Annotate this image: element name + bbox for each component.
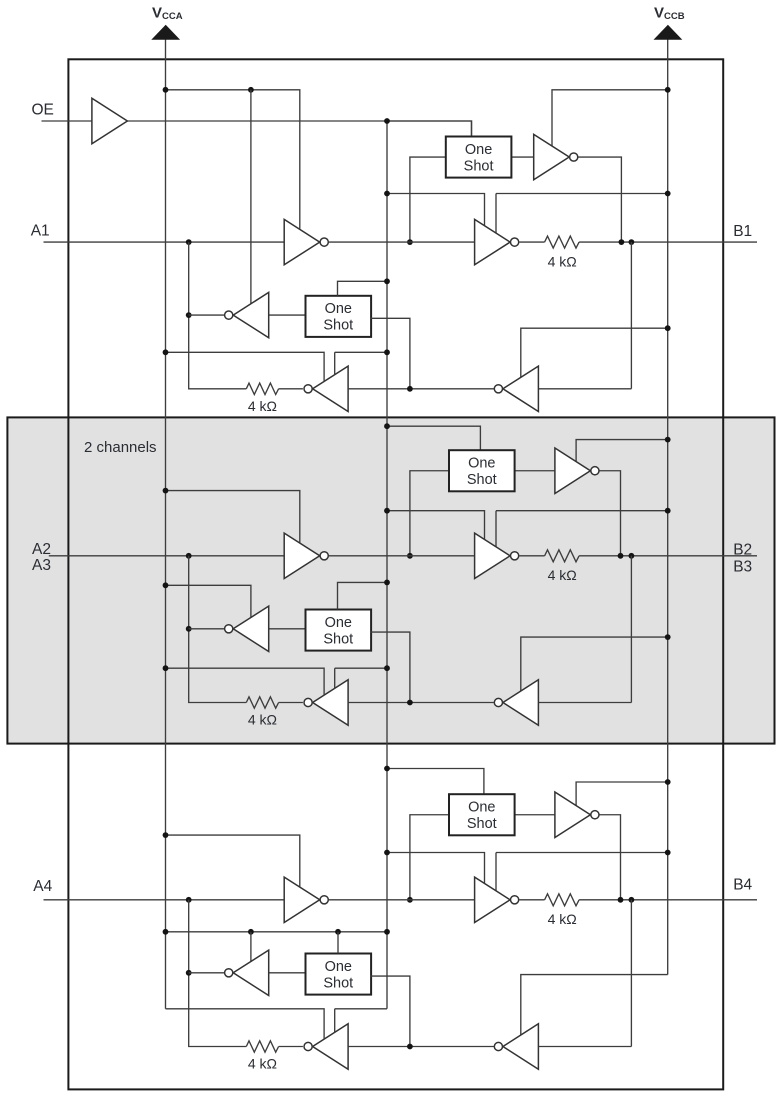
node VCCB junction fb 2 (665, 634, 671, 640)
node OE junction os1 4 (384, 766, 390, 772)
wire bottom-right inverter enable 4 (521, 975, 668, 1036)
node OE junction drv 4 (384, 850, 390, 856)
wire driver enable left pin 2 (387, 511, 485, 540)
wire enable rail 4 (166, 931, 388, 933)
node VCCB junction os 1 (665, 87, 671, 93)
svg-text:B1: B1 (733, 223, 752, 240)
wire mid inverter input 4 (269, 972, 306, 974)
VCCA supply rail (165, 39, 167, 1009)
wire one-shot input tap 4 (410, 815, 449, 900)
mid inverter 1 (233, 292, 269, 337)
bottom-right inverter 4 (503, 1024, 539, 1069)
svg-text:One: One (325, 301, 352, 317)
svg-text:4 kΩ: 4 kΩ (248, 1056, 277, 1072)
one-shot buffer 4 (555, 792, 591, 837)
wire A feedback drop 2 (189, 556, 247, 703)
node bottom line node 1 (407, 386, 413, 392)
wire driver supply right pin 1 (496, 194, 668, 234)
one-shot U4a (449, 794, 515, 835)
svg-text:A2: A2 (32, 541, 51, 558)
resistor 4 kOhm 4 B-side (519, 894, 757, 906)
node feedback tap 4 (186, 897, 192, 903)
node feedback node 4 (629, 897, 635, 903)
svg-text:OE: OE (32, 102, 54, 119)
B-side driver 4 (475, 877, 511, 922)
one-shot buffer 2 (555, 448, 591, 493)
wire one-shot to buffer 2 (515, 470, 555, 472)
bottom-left inverter 4 (313, 1024, 349, 1069)
node one-shot drive node 2 (618, 553, 624, 559)
A-side buffer 1 (284, 219, 320, 264)
wire bottom enable rail left 2 (166, 668, 325, 695)
one-shot U2a (449, 450, 515, 491)
resistor 4 kOhm 2 A-side (246, 697, 303, 708)
wire one-shot 2 output 4 (370, 976, 410, 1046)
wire bottom-right inverter enable 1 (521, 328, 668, 377)
node driver input node 4 (407, 897, 413, 903)
wire one-shot 2 top wire 2 (338, 582, 388, 609)
wire one-shot buffer enable 2 (576, 440, 668, 464)
wire mid inverter enable stub 2 (166, 585, 251, 617)
wire one-shot to buffer 1 (511, 156, 533, 158)
wire A1 line (44, 241, 285, 243)
wire OE to one-shot 1 (387, 121, 472, 137)
wire mid inverter output 2 (189, 628, 225, 630)
wire OE to one-shot 4 (387, 769, 484, 795)
node OE junction drv 1 (384, 191, 390, 197)
wire B feedback drop 1 (538, 242, 631, 389)
A-side buffer 2 (284, 533, 320, 578)
VCCB supply arrow (654, 25, 683, 40)
wire A-buffer enable stub 4 (166, 835, 300, 887)
node VCCA junction b 2 (163, 582, 169, 588)
wire B feedback drop 4 (538, 900, 631, 1047)
wire mid inverter output 4 (189, 972, 225, 974)
node one-shot drive node 1 (619, 239, 625, 245)
node VCCB junction fb 1 (665, 325, 671, 331)
wire bottom inverter link 4 (349, 1046, 495, 1048)
wire one-shot buffer output 1 (578, 157, 621, 242)
svg-text:4 kΩ: 4 kΩ (248, 398, 277, 414)
resistor 4 kOhm 1 A-side (246, 383, 303, 394)
VCCA supply arrow (151, 25, 180, 40)
bottom-right inverter 2 (503, 680, 539, 725)
wire A buffer to B driver 4 (329, 899, 475, 901)
svg-text:One: One (468, 456, 495, 472)
node VCCB junction drv 4 (665, 850, 671, 856)
svg-text:4 kΩ: 4 kΩ (548, 254, 577, 270)
wire one-shot buffer enable 1 (552, 90, 668, 148)
wire one-shot 2 top wire 4 (337, 932, 339, 954)
svg-text:Shot: Shot (464, 158, 494, 174)
svg-text:One: One (325, 959, 352, 975)
wire VCCA-side enable rail 1 (166, 90, 300, 229)
B-side driver 2 (475, 533, 511, 578)
IC boundary box (68, 59, 723, 1089)
wire driver supply right pin 4 (496, 853, 668, 891)
wire bottom inverter link 2 (349, 702, 495, 704)
node VCCB junction drv 1 (665, 191, 671, 197)
wire driver supply right pin 2 (496, 511, 668, 547)
wire one-shot to buffer 4 (515, 814, 555, 816)
node bottom line node 4 (407, 1044, 413, 1050)
node VCCB junction os 4 (665, 779, 671, 785)
one-shot U4b (306, 954, 372, 995)
svg-text:A1: A1 (31, 223, 50, 240)
bottom-left inverter 1 (313, 366, 349, 411)
node feedback tap 2 (186, 553, 192, 559)
wire one-shot buffer enable 4 (576, 782, 668, 808)
node VCCB junction drv 2 (665, 508, 671, 514)
node VCCA junction 1 (163, 87, 169, 93)
svg-text:A4: A4 (33, 878, 52, 895)
node feedback tap 1 (186, 239, 192, 245)
svg-text:One: One (468, 800, 495, 816)
node OE junction drv 2 (384, 508, 390, 514)
wire bottom enable rail right 4 (335, 1009, 387, 1033)
wire inverter enable drop 1 (250, 90, 252, 304)
mid inverter 4 (233, 950, 269, 995)
node OE junction os1 1 (384, 118, 390, 124)
node mid inverter node 2 (186, 626, 192, 632)
wire OE line to one-shot U1 top (42, 121, 472, 137)
svg-text:Shot: Shot (467, 472, 497, 488)
node one-shot top tee 4 (335, 929, 341, 935)
OE input buffer (92, 98, 128, 143)
svg-text:4 kΩ: 4 kΩ (548, 567, 577, 583)
svg-text:One: One (325, 615, 352, 631)
mid inverter 2 (233, 606, 269, 651)
wire A-buffer enable stub 2 (166, 491, 300, 543)
resistor 4 kOhm 1 B-side (519, 236, 757, 248)
svg-text:B2: B2 (733, 542, 752, 559)
node feedback node 2 (629, 553, 635, 559)
node mid inverter node 4 (186, 970, 192, 976)
node VCCB junction os 2 (665, 437, 671, 443)
wire bottom enable rail left 4 (166, 1009, 325, 1040)
svg-text:Shot: Shot (323, 975, 353, 991)
node driver input node 1 (407, 239, 413, 245)
bottom-right inverter 1 (503, 366, 539, 411)
node OE junction c 2 (384, 665, 390, 671)
node VCCA junction c 1 (163, 349, 169, 355)
wire driver enable left pin 4 (387, 853, 485, 884)
VCCB supply rail (667, 39, 669, 975)
node VCCA junction a 2 (163, 488, 169, 494)
wire mid inverter input 2 (269, 628, 306, 630)
node OE junction rail 4 (384, 929, 390, 935)
node feedback node 1 (629, 239, 635, 245)
svg-text:Shot: Shot (323, 631, 353, 647)
resistor 4 kOhm 2 B-side (519, 550, 757, 562)
wire A buffer to B driver 1 (329, 241, 475, 243)
one-shot U1a (446, 137, 512, 178)
svg-text:4 kΩ: 4 kΩ (248, 712, 277, 728)
svg-text:B4: B4 (733, 876, 752, 893)
wire mid inverter input 1 (269, 314, 306, 316)
svg-text:Shot: Shot (323, 318, 353, 334)
svg-text:Shot: Shot (467, 816, 497, 832)
wire A buffer to B driver 2 (329, 555, 475, 557)
svg-text:4 kΩ: 4 kΩ (548, 911, 577, 927)
wire one-shot 2 output 1 (370, 318, 410, 388)
node VCCA junction b 4 (163, 929, 169, 935)
node mid inverter node 1 (186, 312, 192, 318)
wire bottom-right inverter enable 2 (521, 637, 668, 691)
wire one-shot buffer output 2 (600, 471, 621, 556)
wire mid inverter output 1 (189, 314, 225, 316)
wire A feedback drop 4 (189, 900, 247, 1047)
node driver input node 2 (407, 553, 413, 559)
one-shot U1b (306, 296, 372, 337)
one-shot U2b (306, 610, 372, 651)
node VCCA junction a 4 (163, 832, 169, 838)
shaded 2-channels region (7, 417, 774, 743)
B-side driver 1 (475, 219, 511, 264)
wire one-shot 2 output 2 (370, 632, 410, 702)
wire bottom inverter link 1 (349, 388, 495, 390)
wire OE to one-shot 2 (387, 426, 480, 450)
bottom-left inverter 2 (313, 680, 349, 725)
resistor 4 kOhm 4 A-side (246, 1041, 303, 1052)
svg-text:B3: B3 (733, 559, 752, 576)
svg-text:One: One (465, 142, 492, 158)
wire inverter enable drop 4 (250, 932, 252, 962)
node OE junction os1 2 (384, 423, 390, 429)
wire one-shot input tap 2 (410, 471, 449, 556)
wire bottom enable rail left 1 (166, 352, 325, 381)
node enable tee 4 (248, 929, 254, 935)
wire A2 line (49, 555, 284, 557)
node VCCA junction c 2 (163, 665, 169, 671)
wire B feedback drop 2 (538, 556, 631, 703)
node one-shot drive node 4 (618, 897, 624, 903)
wire bottom enable rail right 2 (335, 668, 387, 688)
node OE junction os2 1 (384, 278, 390, 284)
node bottom line node 2 (407, 700, 413, 706)
wire A feedback drop 1 (189, 242, 247, 389)
svg-text:A3: A3 (32, 557, 51, 574)
wire one-shot input tap 1 (410, 157, 446, 242)
one-shot buffer 1 (534, 134, 570, 179)
node OE junction c 1 (384, 349, 390, 355)
node OE junction os2 2 (384, 580, 390, 586)
OE distribution line vertical (386, 121, 388, 1009)
wire A4 line (44, 899, 285, 901)
wire one-shot buffer output 4 (600, 815, 621, 900)
svg-text:2 channels: 2 channels (84, 439, 157, 456)
wire driver enable left pin 1 (387, 194, 485, 226)
node enable tee 1 (248, 87, 254, 93)
wire bottom enable rail right 1 (335, 352, 387, 375)
A-side buffer 4 (284, 877, 320, 922)
wire one-shot 2 top wire 1 (338, 281, 388, 296)
